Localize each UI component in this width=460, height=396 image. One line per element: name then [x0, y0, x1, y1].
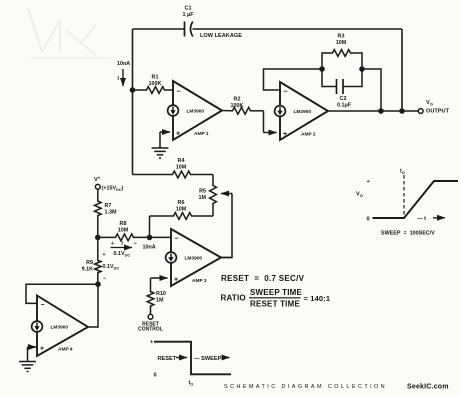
ground amp1 — [152, 148, 169, 158]
node feedback left — [319, 66, 325, 72]
wire feedback to output — [362, 69, 381, 111]
svg-text:−: − — [41, 302, 45, 309]
wire amp4 plus input arrow — [28, 347, 37, 361]
svg-text:10M: 10M — [336, 40, 347, 46]
svg-text:−: − — [175, 236, 179, 243]
node output C1 junction — [399, 108, 405, 114]
svg-text:C2: C2 — [340, 96, 347, 102]
op-amp U3 AMP 3 — [166, 229, 221, 286]
terminal V+ supply — [94, 175, 124, 191]
svg-text:9.1K: 9.1K — [82, 267, 93, 273]
node output feedback junction — [378, 108, 384, 114]
resistor R4 — [133, 158, 214, 178]
wire R2 to amp2 plus — [264, 111, 277, 133]
wire top rail — [133, 28, 403, 30]
wire amp2 minus feedback — [264, 69, 323, 90]
label R8 voltage polarity — [111, 241, 138, 257]
wire amp3 output stub — [221, 257, 232, 259]
node amp4 feedback — [95, 281, 101, 287]
svg-text:SCHEMATIC DIAGRAM COLLECTION: SCHEMATIC DIAGRAM COLLECTION — [224, 384, 387, 390]
svg-text:R8: R8 — [120, 221, 127, 227]
svg-text:R6: R6 — [178, 200, 185, 206]
svg-text:R5: R5 — [199, 189, 206, 195]
svg-text:AMP 4: AMP 4 — [58, 347, 73, 353]
svg-text:OUTPUT: OUTPUT — [426, 109, 450, 115]
svg-text:−: − — [284, 89, 288, 96]
svg-text:10M: 10M — [176, 207, 187, 213]
svg-text:−: − — [177, 89, 181, 96]
svg-text:+: + — [176, 131, 180, 138]
svg-text:R9: R9 — [86, 260, 93, 266]
svg-text:10M: 10M — [118, 228, 129, 234]
svg-text:+: + — [103, 252, 106, 258]
svg-text:SWEEP TIME: SWEEP TIME — [250, 288, 303, 297]
graph reset sweep timing — [150, 340, 231, 387]
resistor R3 — [322, 34, 362, 70]
wire amp2 output — [328, 110, 418, 112]
svg-text:R3: R3 — [338, 34, 345, 40]
current label 10nA with arrow — [117, 61, 130, 86]
svg-text:R2: R2 — [234, 97, 241, 103]
resistor R1 — [133, 75, 174, 94]
svg-text:tO: tO — [189, 380, 194, 386]
svg-text:+: + — [174, 277, 178, 284]
svg-text:0: 0 — [367, 217, 370, 223]
svg-text:10nA: 10nA — [117, 61, 130, 67]
svg-text:1M: 1M — [156, 298, 164, 304]
capacitor C2 — [322, 69, 362, 109]
svg-text:AMP 3: AMP 3 — [192, 278, 207, 284]
wire pot wiper to amp3 output — [221, 194, 232, 258]
ground amp4 — [19, 362, 36, 372]
wire left vertical — [132, 29, 134, 175]
svg-text:10M: 10M — [176, 165, 187, 171]
svg-text:VO: VO — [356, 192, 363, 199]
svg-text:LM3900: LM3900 — [185, 256, 203, 262]
resistor R2 — [222, 97, 264, 115]
svg-text:AMP 1: AMP 1 — [194, 131, 209, 137]
svg-text:1.3M: 1.3M — [105, 210, 117, 216]
svg-text:RESET = 0.7 SEC/V: RESET = 0.7 SEC/V — [221, 274, 305, 283]
svg-text:= 140:1: = 140:1 — [304, 294, 331, 303]
wire R6 down to summing row — [149, 216, 151, 237]
resistor R6 — [150, 200, 214, 219]
resistor R10 — [147, 290, 166, 314]
svg-text:SWEEP = 100SEC/V: SWEEP = 100SEC/V — [381, 231, 435, 237]
node R7 R8 R9 — [95, 235, 101, 241]
resistor R5 potentiometer — [199, 175, 233, 217]
op-amp U2 AMP 2 — [275, 82, 328, 140]
node input summing — [130, 87, 136, 93]
svg-text:1 μF: 1 μF — [182, 12, 194, 18]
wire amp1 plus input arrow — [160, 132, 170, 148]
watermark ghost lines — [28, 8, 110, 58]
svg-text:R7: R7 — [105, 203, 112, 209]
svg-text:RATIO: RATIO — [221, 294, 246, 303]
wire amp3 plus input arrow — [151, 278, 168, 290]
svg-text:100K: 100K — [149, 81, 162, 87]
svg-text:0.1μF: 0.1μF — [337, 103, 352, 109]
resistor R9 — [82, 237, 120, 284]
svg-text:R4: R4 — [178, 158, 185, 164]
svg-text:LM3900: LM3900 — [294, 109, 312, 115]
resistor R8 — [98, 221, 171, 241]
svg-text:1M: 1M — [199, 195, 207, 201]
svg-text:RESET TIME: RESET TIME — [250, 300, 300, 309]
svg-text:CONTROL: CONTROL — [138, 326, 163, 332]
svg-text:LOW LEAKAGE: LOW LEAKAGE — [200, 33, 242, 39]
svg-text:C1: C1 — [185, 6, 192, 12]
svg-text:AMP 2: AMP 2 — [301, 132, 316, 138]
node summing amp3 — [147, 235, 153, 241]
svg-text:VO: VO — [426, 100, 433, 107]
svg-text:LM3900: LM3900 — [51, 325, 69, 331]
resistor R7 — [95, 189, 117, 237]
terminal Vo output — [418, 100, 449, 115]
svg-text:— SWEEP: — SWEEP — [194, 356, 222, 362]
svg-text:RESET: RESET — [158, 356, 177, 362]
svg-text:+: + — [283, 131, 287, 138]
svg-text:R1: R1 — [152, 75, 159, 81]
graph Vo ramp — [356, 169, 458, 237]
svg-text:— t: — t — [417, 216, 426, 222]
wire amp4 feedback loop — [26, 284, 98, 303]
terminal reset control — [138, 314, 163, 332]
svg-text:tO: tO — [400, 169, 405, 175]
svg-text:+: + — [40, 346, 44, 353]
svg-text:10nA: 10nA — [143, 245, 156, 251]
svg-text:LM3900: LM3900 — [187, 109, 205, 115]
capacitor C1 — [182, 6, 242, 40]
svg-text:+: + — [111, 241, 114, 247]
op-amp U4 AMP 4 — [32, 296, 88, 357]
label ratio equation — [221, 288, 331, 309]
svg-text:SeekIC.com: SeekIC.com — [407, 384, 449, 391]
node feedback right — [359, 66, 365, 72]
label reset equation — [221, 274, 305, 283]
wire right vertical to output — [401, 29, 403, 111]
wire amp4 output — [88, 284, 98, 327]
svg-text:100K: 100K — [231, 103, 244, 109]
svg-text:R10: R10 — [156, 291, 166, 297]
op-amp U1 AMP 1 — [168, 81, 222, 140]
svg-text:0: 0 — [154, 373, 157, 379]
